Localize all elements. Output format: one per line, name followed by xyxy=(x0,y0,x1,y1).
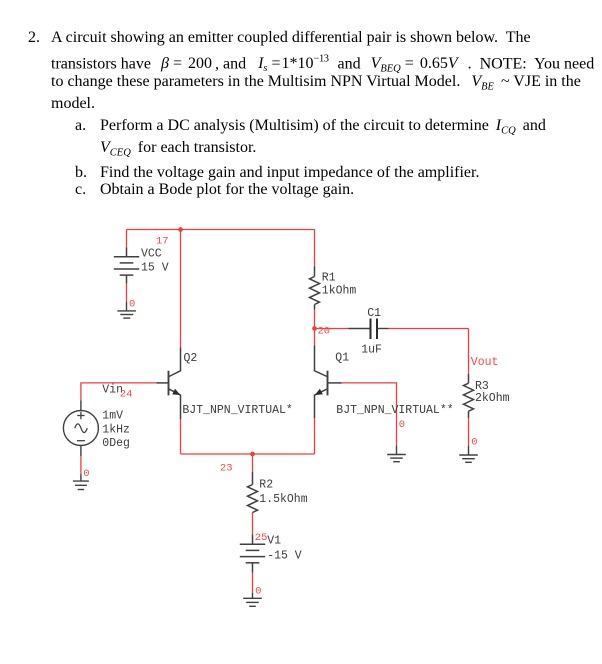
capacitor C1 xyxy=(349,319,389,340)
svg-text:R2: R2 xyxy=(259,479,273,492)
problem statement text xyxy=(28,30,40,46)
svg-text:23: 23 xyxy=(220,463,233,475)
svg-text:Vout: Vout xyxy=(471,356,499,369)
wire VCC top stub xyxy=(126,230,128,248)
ground below V1 xyxy=(243,593,262,607)
svg-text:20: 20 xyxy=(318,326,331,338)
wire VCC bottom xyxy=(126,284,128,303)
wire R2 top xyxy=(252,454,254,472)
wire C1 to Vout corner xyxy=(389,328,469,330)
svg-text:0: 0 xyxy=(471,437,477,449)
svg-text:25: 25 xyxy=(255,532,268,544)
wire node20 to C1 xyxy=(315,328,349,330)
wire R2 bottom to V1 xyxy=(252,513,254,534)
svg-text:1mV: 1mV xyxy=(102,409,123,422)
svg-text:0: 0 xyxy=(83,468,89,480)
svg-text:BJT_NPN_VIRTUAL**: BJT_NPN_VIRTUAL** xyxy=(336,404,453,417)
wire R3 bottom xyxy=(468,418,470,446)
svg-text:17: 17 xyxy=(156,235,169,247)
svg-text:1kHz: 1kHz xyxy=(102,423,130,436)
ground below VCC xyxy=(117,302,136,318)
svg-text:2kOhm: 2kOhm xyxy=(475,392,510,405)
wire AC source bottom xyxy=(80,456,82,474)
svg-text:0: 0 xyxy=(129,299,135,311)
svg-text:0: 0 xyxy=(399,419,405,431)
wire V1 bottom xyxy=(252,573,254,593)
ground below R3 xyxy=(459,446,478,463)
transistor Q1 xyxy=(315,346,342,419)
svg-text:Q2: Q2 xyxy=(184,352,198,365)
battery VCC xyxy=(114,248,139,284)
wire Vout vertical xyxy=(468,329,470,374)
wire R1 bottom to Q1 collector (node 20) xyxy=(314,310,316,346)
battery V1 xyxy=(240,534,265,572)
resistor R1 xyxy=(310,267,320,310)
wire Q2 emitter down xyxy=(180,419,182,454)
wire R1 top xyxy=(314,230,316,267)
svg-text:15 V: 15 V xyxy=(141,261,169,274)
svg-text:0Deg: 0Deg xyxy=(102,437,130,450)
ground below AC source xyxy=(73,474,89,489)
node junction dot 17 xyxy=(178,227,183,232)
svg-text:1.5kOhm: 1.5kOhm xyxy=(259,493,307,506)
wire Q1 base to ground xyxy=(342,383,397,445)
node junction dot 20 xyxy=(312,326,317,331)
wire Q1 emitter down xyxy=(314,418,316,454)
svg-text:1uF: 1uF xyxy=(361,344,382,357)
AC source V2 (Vin) xyxy=(63,401,98,457)
svg-text:R1: R1 xyxy=(322,272,336,285)
svg-text:V1: V1 xyxy=(267,535,281,548)
transistor Q2 xyxy=(157,348,181,420)
svg-text:-15 V: -15 V xyxy=(267,550,302,563)
wire top rail node 17 xyxy=(127,229,315,231)
ground Q1 base xyxy=(387,445,406,461)
svg-text:BJT_NPN_VIRTUAL*: BJT_NPN_VIRTUAL* xyxy=(182,404,292,417)
wire bottom rail node 23 xyxy=(181,453,315,455)
svg-text:C1: C1 xyxy=(367,307,381,320)
svg-text:24: 24 xyxy=(120,388,133,400)
svg-text:Q1: Q1 xyxy=(335,352,349,365)
node junction dot 23 xyxy=(250,452,255,457)
wire Q2 collector xyxy=(180,230,182,348)
resistor R2 xyxy=(248,472,258,513)
svg-text:0: 0 xyxy=(255,586,261,598)
svg-text:1kOhm: 1kOhm xyxy=(322,285,357,298)
svg-text:VCC: VCC xyxy=(141,248,162,261)
resistor R3 xyxy=(464,374,474,418)
wire Vin to Q2 base xyxy=(81,383,157,401)
